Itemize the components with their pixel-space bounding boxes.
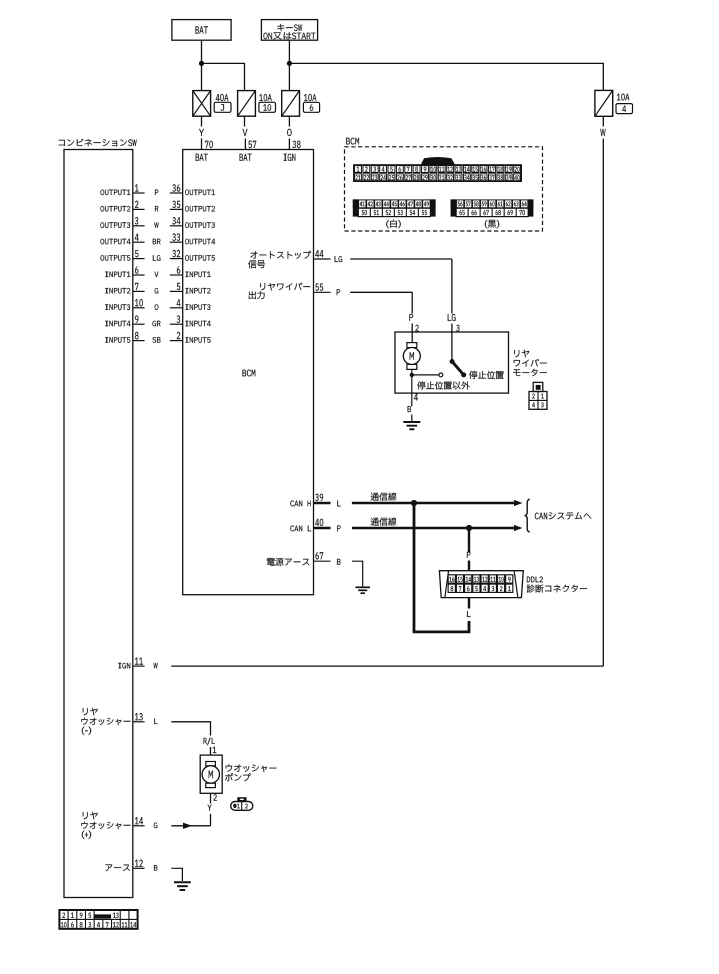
- CAN H bus wire: [371, 493, 397, 501]
- rear wiper motor label: [514, 350, 529, 358]
- BCM connector pinout label: [346, 138, 359, 145]
- DDL2 diagnostic connector: [439, 571, 523, 598]
- pin 13 rear washer minus label: [83, 708, 98, 716]
- pin 44 stub: [314, 258, 331, 260]
- wire color O fuse to BCM pin38: [288, 116, 290, 126]
- pin 14 stub: [133, 825, 145, 827]
- wire G pin14 with arrow: [171, 825, 210, 827]
- pin 67 power ground: [267, 558, 310, 566]
- wire B pin12 to ground: [171, 868, 182, 881]
- junction node CAN L: [466, 525, 472, 531]
- park switch blade: [452, 362, 464, 375]
- wire P pin55 to wiper motor pin2: [337, 289, 340, 295]
- washer pump label: [226, 764, 277, 772]
- pin label BAT 70: [196, 154, 208, 161]
- junction node CAN H: [411, 500, 417, 506]
- ground symbol (combination SW): [174, 881, 191, 883]
- wire motor to park switch junction: [411, 369, 413, 375]
- combination switch box: [64, 150, 133, 898]
- wire L DDL2 to CAN H loop: [468, 598, 470, 609]
- wire BAT to fuse 40A: [201, 40, 203, 90]
- fuse 40A J: [193, 91, 211, 117]
- wire key switch to fuse 10A-6: [288, 40, 290, 90]
- pin label BAT 57: [240, 154, 252, 161]
- BCM box label: [243, 370, 256, 377]
- wire branch to fuse 10A-4 far right: [289, 63, 603, 90]
- pin row OUTPUT3: combination SW pin 3 wire W BCM pin 34: [101, 222, 131, 228]
- open contact (park position other): [439, 373, 443, 377]
- junction dot park-position-other contact: [410, 373, 414, 377]
- combination SW connector pinout: [59, 910, 137, 929]
- pin row INPUT2: combination SW pin 7 wire G BCM pin 5: [105, 288, 130, 294]
- pin row INPUT1: combination SW pin 6 wire V BCM pin 6: [105, 272, 130, 278]
- pin row INPUT3: combination SW pin 10 wire O BCM pin 4: [105, 304, 130, 310]
- fuse 10A 4: [595, 90, 613, 116]
- power ground wire: [352, 561, 363, 586]
- wiper motor M symbol: [407, 343, 417, 348]
- rear wiper motor box: [395, 332, 509, 393]
- sub connector white 41-55: [353, 199, 436, 208]
- pin 12 ground row: [105, 865, 129, 872]
- pin 39 CAN H: [290, 501, 310, 507]
- motor ground wire pin 4: [411, 375, 413, 407]
- BCM top pin 57: [249, 141, 257, 148]
- BCM top pin 70: [205, 141, 213, 148]
- pin 55 rear wiper output label: [260, 283, 310, 291]
- contact line to open contact: [412, 374, 439, 376]
- thick loop wire to CAN H node: [413, 503, 416, 632]
- junction node on BAT feed: [199, 61, 204, 66]
- pin row OUTPUT2: combination SW pin 2 wire R BCM pin 35: [101, 206, 131, 212]
- washer pump motor M: [206, 762, 216, 766]
- wire branch to fuse 10A-10: [202, 63, 245, 90]
- wire W IGN to fuse 4: [171, 665, 603, 667]
- wire L pin13 to washer pump: [171, 722, 210, 736]
- sub connector black 56-70: [451, 199, 534, 208]
- pin 44 auto-stop signal label: [250, 251, 311, 259]
- pin 11 IGN row: [118, 663, 130, 669]
- pin 40 CAN L: [290, 526, 311, 532]
- pin row OUTPUT4: combination SW pin 4 wire BR BCM pin 33: [101, 239, 131, 245]
- fuse 10A 6: [282, 91, 300, 117]
- washer pump box: [200, 755, 222, 793]
- pin 13 stub: [133, 721, 145, 723]
- label (white): [386, 220, 400, 229]
- junction node on IGN feed: [287, 61, 292, 66]
- label (black): [485, 220, 499, 228]
- wiper motor connector icon: [533, 382, 543, 391]
- label park position: [469, 371, 504, 379]
- pin row OUTPUT1: combination SW pin 1 wire P BCM pin 36: [101, 190, 131, 196]
- wire color W right vertical run to IGN pin11: [602, 116, 604, 126]
- pin row INPUT4: combination SW pin 9 wire GR BCM pin 3: [105, 321, 130, 327]
- BCM box: [183, 150, 314, 595]
- washer pump pin 2 wire Y: [210, 793, 212, 803]
- key switch box (ON or START): [261, 20, 317, 41]
- pin row OUTPUT5: combination SW pin 5 wire LG BCM pin 32: [101, 255, 131, 261]
- combination switch label: [59, 139, 137, 147]
- ground symbol (power ground): [355, 586, 370, 588]
- fuse 10A 10: [238, 91, 256, 117]
- pin label IGN 38: [284, 154, 296, 161]
- pin row INPUT5: combination SW pin 8 wire SB BCM pin 2: [105, 337, 130, 343]
- ground symbol (wiper motor): [403, 421, 420, 423]
- pin 55 stub: [314, 291, 331, 293]
- wire LG pin44 to wiper motor pin3: [335, 256, 343, 262]
- washer pump connector icon: [237, 797, 246, 802]
- BCM top pin 38: [293, 141, 301, 148]
- CAN L bus wire: [371, 518, 397, 526]
- BCM connector pinout dashed box: [345, 147, 543, 231]
- connector tab (black): [421, 157, 456, 165]
- DDL2 label: [527, 577, 543, 583]
- label other than park position: [417, 381, 469, 389]
- power source BAT box: [172, 20, 231, 41]
- wire P CAN L to DDL2: [468, 528, 470, 553]
- main 40pin connector grid: [354, 165, 522, 181]
- wire color V fuse to BCM pin57: [244, 116, 246, 126]
- wire color Y fuse to BCM pin70: [201, 116, 203, 126]
- pin 14 rear washer plus label: [83, 812, 98, 820]
- brace to CAN system: [525, 499, 530, 532]
